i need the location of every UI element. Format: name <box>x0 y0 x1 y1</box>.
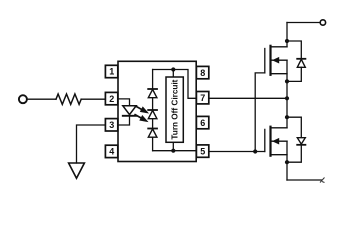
svg-text:4: 4 <box>109 147 114 157</box>
svg-text:7: 7 <box>200 93 205 103</box>
svg-text:8: 8 <box>200 68 205 78</box>
svg-text:Turn Off Circuit: Turn Off Circuit <box>171 79 180 139</box>
svg-text:3: 3 <box>109 120 114 130</box>
svg-text:1: 1 <box>109 67 114 77</box>
svg-text:5: 5 <box>200 146 205 156</box>
svg-text:6: 6 <box>200 118 205 128</box>
svg-text:2: 2 <box>109 94 114 104</box>
